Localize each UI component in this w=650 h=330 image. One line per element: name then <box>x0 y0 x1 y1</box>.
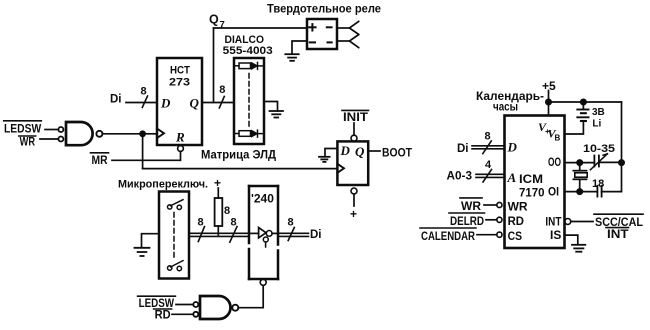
svg-text:OO: OO <box>548 157 561 169</box>
svg-text:ICM: ICM <box>519 174 543 186</box>
svg-text:WR: WR <box>461 201 482 213</box>
gate G1 (AND shape, inverted inputs and output) <box>58 122 102 145</box>
bus slash 8 <box>142 96 147 108</box>
svg-text:B: B <box>555 134 561 143</box>
svg-text:INT: INT <box>545 216 561 228</box>
pull-up resistor R1 <box>215 188 223 235</box>
bus A0-3 to A (double line) <box>476 174 505 177</box>
svg-text:OI: OI <box>548 187 559 199</box>
svg-text:4: 4 <box>485 159 492 171</box>
svg-text:10-35: 10-35 <box>583 143 615 155</box>
svg-text:LEDSW: LEDSW <box>4 123 41 135</box>
label CALENDAR (active low) <box>420 228 476 243</box>
terminal fork 1 <box>349 21 358 34</box>
svg-text:273: 273 <box>169 77 190 89</box>
svg-text:8: 8 <box>485 131 491 143</box>
wire Q7 riser <box>213 28 215 103</box>
label LEDSW (active low) <box>138 296 176 310</box>
pin R bubble <box>178 146 184 152</box>
svg-text:D: D <box>507 140 518 155</box>
svg-text:MR: MR <box>92 155 109 167</box>
terminal fork 2 <box>349 35 358 48</box>
switch contact top <box>168 205 172 209</box>
wire right rail lower <box>621 163 623 192</box>
bus slash 8 <box>483 141 492 154</box>
battery BT1 3V Li <box>565 99 589 134</box>
label INT (active low) <box>606 228 629 241</box>
bus slash 8 <box>198 227 204 242</box>
svg-text:Di: Di <box>110 94 122 106</box>
wire Q bus to ELD matrix <box>202 102 234 104</box>
label Q7 <box>209 13 225 31</box>
svg-text:CALENDAR: CALENDAR <box>421 231 476 243</box>
wire G2 output to buffer enable <box>238 285 263 307</box>
wire relay AC output 1 <box>337 27 349 29</box>
pin bubble RD <box>497 217 502 222</box>
crystal Y1 <box>573 163 587 192</box>
wire node to HCT273 clock <box>143 133 156 135</box>
svg-text:Di: Di <box>457 143 469 155</box>
wire LEDSW input <box>176 304 193 306</box>
wire matrix common to ground <box>264 102 278 112</box>
switch contact bottom <box>168 266 172 270</box>
svg-text:'240: '240 <box>251 192 274 206</box>
label DIALCO 555-4003 <box>223 34 273 57</box>
wire G1 output to node <box>103 133 143 135</box>
svg-text:8: 8 <box>288 217 294 229</box>
svg-text:RD: RD <box>508 216 524 228</box>
wire IS to ground <box>565 235 578 245</box>
svg-text:часы: часы <box>493 102 518 114</box>
svg-text:INT: INT <box>607 229 629 241</box>
IC U4 ICM7170 box <box>505 116 565 249</box>
node dot OO <box>577 160 583 166</box>
bus slash 8 <box>230 227 237 243</box>
wire switch common to ground <box>142 234 160 248</box>
node junction dot <box>140 131 146 137</box>
svg-text:Li: Li <box>592 119 601 130</box>
bus slash 8 <box>219 96 224 108</box>
ground <box>270 111 284 118</box>
svg-text:HCT: HCT <box>170 65 190 77</box>
wire Di bus to D <box>126 102 157 104</box>
wire Q7 to relay <box>214 27 308 29</box>
wire right rail down <box>621 102 623 163</box>
flip-flop U2 <box>337 141 368 185</box>
svg-text:8: 8 <box>198 217 204 229</box>
wire Q output <box>368 150 380 152</box>
svg-text:8: 8 <box>141 85 147 97</box>
inverting buffer symbol <box>251 228 279 248</box>
wire node down <box>142 134 144 169</box>
svg-text:+: + <box>350 207 357 221</box>
wire clear stem to plus <box>353 194 355 206</box>
svg-text:Q: Q <box>209 13 219 27</box>
svg-text:A0-3: A0-3 <box>447 170 473 182</box>
LED diode bottom <box>252 130 258 137</box>
node dot <box>546 99 552 105</box>
label WR (active low) <box>460 198 482 213</box>
wire DELRD <box>486 219 497 221</box>
svg-text:Твердотельное реле: Твердотельное реле <box>267 3 381 15</box>
label DELRD (active low) <box>449 213 485 228</box>
wire INIT stem <box>353 123 355 135</box>
svg-text:555-4003: 555-4003 <box>223 45 273 57</box>
dashed continuation <box>173 213 175 261</box>
label WR (active low) <box>19 136 36 149</box>
buffer U3 '240 box <box>249 186 278 279</box>
svg-text:R: R <box>175 130 185 145</box>
bus slash 8 <box>288 228 294 241</box>
relay K1 box <box>307 19 337 49</box>
svg-text:IS: IS <box>550 230 562 242</box>
svg-text:BOOT: BOOT <box>382 147 412 159</box>
svg-text:CS: CS <box>508 231 523 243</box>
pin bubble INT <box>565 219 571 225</box>
svg-text:WR: WR <box>20 137 36 149</box>
label 3B Li <box>592 107 605 130</box>
svg-text:Q: Q <box>190 96 200 111</box>
bus switch to buffer (double line) <box>189 233 249 236</box>
wire OI pin <box>565 191 598 193</box>
wire D input to ground <box>325 149 337 157</box>
svg-text:Матрица ЭЛД: Матрица ЭЛД <box>201 148 276 162</box>
svg-text:RD: RD <box>155 309 171 321</box>
dashed continuation <box>248 74 250 128</box>
svg-text:Микропереключ.: Микропереключ. <box>118 179 208 191</box>
svg-text:8: 8 <box>231 217 237 229</box>
svg-text:DELRD: DELRD <box>450 216 484 228</box>
LED diode top <box>252 63 258 70</box>
wire LEDSW input <box>45 129 58 131</box>
svg-text:Di: Di <box>310 229 322 241</box>
svg-text:8: 8 <box>224 205 230 217</box>
bus slash 4 <box>483 170 492 183</box>
ground <box>135 248 150 256</box>
wire INT out <box>571 221 593 223</box>
register U1 HCT273 <box>157 58 202 145</box>
label Calendar-clock <box>476 91 544 114</box>
node dot right rail <box>619 160 625 166</box>
svg-text:3В: 3В <box>592 107 605 118</box>
label MR (active low) <box>91 153 109 167</box>
label LEDSW (active low) <box>4 121 42 136</box>
pin bubble preset <box>351 135 357 141</box>
switch S1 box <box>159 192 189 279</box>
node dot OI <box>577 189 583 195</box>
bus Di to D (double line) <box>472 146 505 149</box>
ground <box>572 245 585 252</box>
svg-text:D: D <box>160 96 171 111</box>
wire OO pin <box>565 162 595 164</box>
svg-text:D: D <box>340 143 351 158</box>
svg-text:INIT: INIT <box>343 112 368 124</box>
label SCC/CAL (active low) <box>594 214 643 229</box>
svg-text:A: A <box>507 170 517 185</box>
trimmer capacitor C1 10-35 <box>590 154 621 170</box>
svg-text:8: 8 <box>219 84 225 96</box>
ground <box>319 157 330 162</box>
wire RD input <box>172 313 193 315</box>
label INIT (active low) <box>342 110 369 124</box>
capacitor C2 18 <box>597 186 621 197</box>
pin bubble clear <box>351 188 357 194</box>
wire +5 stem <box>548 91 550 116</box>
wire MR to R bubble <box>112 152 181 161</box>
ground <box>285 54 298 61</box>
LED matrix DS1 (DIALCO box) <box>234 58 264 144</box>
pin bubble WR <box>497 202 502 207</box>
svg-text:7170: 7170 <box>519 187 545 199</box>
wire WR <box>484 204 497 206</box>
bus buffer to Di (double line) <box>278 233 309 236</box>
pin enable bubble on box <box>260 279 266 285</box>
wire +5 rail to right <box>549 101 622 103</box>
svg-text:WR: WR <box>508 202 529 214</box>
resistor in bottom element <box>236 133 240 135</box>
svg-text:Q: Q <box>355 144 365 159</box>
label RD (active low) <box>154 309 172 321</box>
wire CALENDAR <box>477 234 497 236</box>
wire relay AC output 2 <box>337 40 349 42</box>
gate G2 (AND shape, inverted inputs and output) <box>193 296 238 319</box>
pin bubble CS <box>497 232 502 237</box>
wire long run to flip-flop clock <box>143 168 338 170</box>
wire relay minus to ground <box>292 41 307 54</box>
wire WR input <box>40 138 58 140</box>
resistor in top element <box>236 65 240 67</box>
